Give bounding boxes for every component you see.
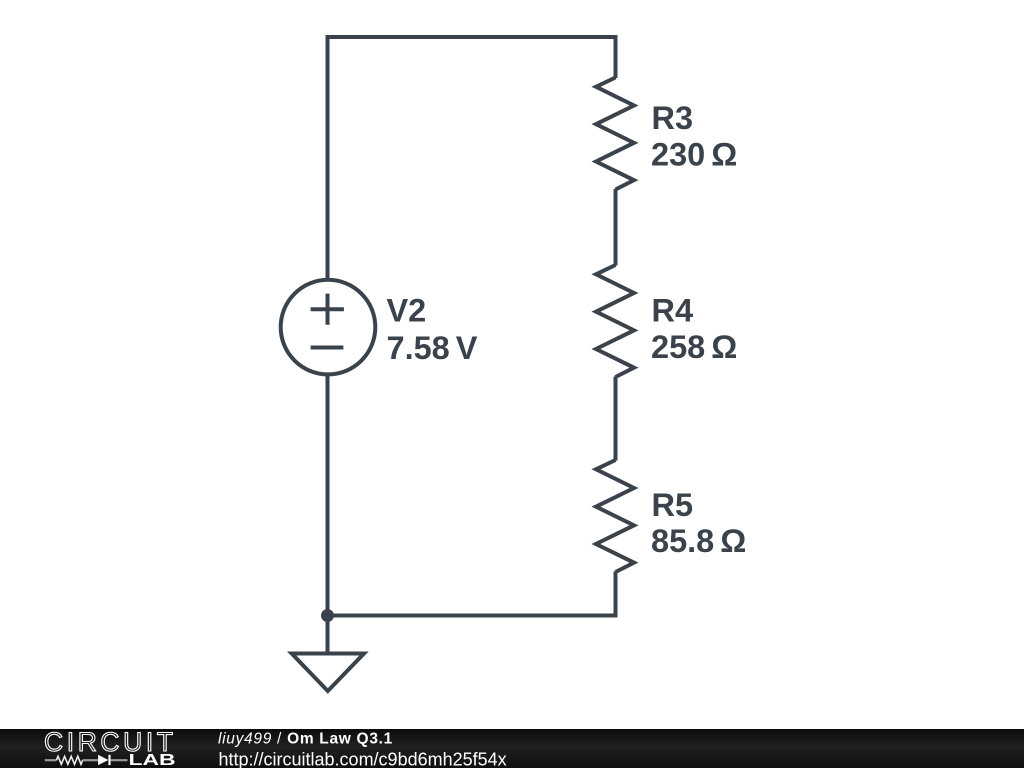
node: junction of V2-, R5 and ground	[321, 609, 334, 622]
svg-text:liuy499 / Om Law Q3.1: liuy499 / Om Law Q3.1	[218, 731, 393, 748]
wire: R4 pin 2 to R5 pin 1	[614, 377, 618, 461]
wire: R5 pin 2 down and across bottom to ground junction	[328, 572, 616, 616]
svg-text:258 Ω: 258 Ω	[651, 329, 737, 365]
footer bar	[0, 729, 1024, 768]
wire: V2 + terminal up, across top, down to R3 pin 1	[328, 37, 616, 279]
svg-text:R5: R5	[652, 487, 694, 523]
svg-text:V2: V2	[387, 293, 427, 329]
voltage source V2	[281, 280, 376, 375]
wire: R3 pin 2 to R4 pin 1	[614, 189, 618, 266]
svg-text:85.8 Ω: 85.8 Ω	[651, 523, 746, 559]
svg-text:http://circuitlab.com/c9bd6mh2: http://circuitlab.com/c9bd6mh25f54x	[219, 750, 507, 768]
ground	[292, 616, 364, 692]
svg-text:LAB: LAB	[129, 751, 176, 768]
svg-text:R3: R3	[652, 100, 694, 136]
resistor R3	[596, 78, 634, 190]
resistor R4	[596, 265, 634, 377]
svg-text:230 Ω: 230 Ω	[651, 137, 737, 173]
wire: V2 - terminal down to ground junction	[326, 374, 330, 616]
svg-text:7.58 V: 7.58 V	[387, 330, 478, 366]
svg-text:R4: R4	[652, 292, 694, 328]
resistor R5	[596, 460, 634, 572]
CircuitLab logo: resistor-diode strip	[45, 755, 128, 765]
